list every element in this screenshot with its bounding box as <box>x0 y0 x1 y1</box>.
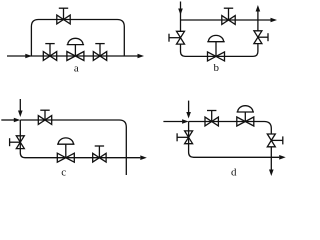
arrow: flow on main line a <box>25 54 32 59</box>
wire: top line and right drop c <box>20 120 126 175</box>
arrow: right outlet d <box>279 155 286 160</box>
valve: bypass gate valve a <box>57 8 70 24</box>
wire: main line a <box>7 55 138 57</box>
arrow: inlet flow c <box>14 118 20 123</box>
control valve a <box>67 38 84 60</box>
control valve d <box>237 106 254 126</box>
valve: top gate valve d <box>205 111 218 126</box>
valve: block valve a2 <box>93 44 106 61</box>
arrow: down outlet d <box>269 170 274 177</box>
wire: left branch and bottom line c <box>20 120 140 158</box>
arrow: top inlet flow d <box>186 112 191 119</box>
wire: bypass loop a <box>31 20 124 57</box>
valve: right block valve b <box>254 31 268 44</box>
svg-text:d: d <box>231 166 237 178</box>
wire: left inlet d <box>163 121 182 123</box>
wire: down outlet drop d <box>270 147 272 170</box>
svg-text:a: a <box>74 63 79 75</box>
arrow: inlet flow b <box>178 9 183 16</box>
valve: top gate valve c <box>38 110 51 124</box>
wire: left branch and bottom line d <box>189 122 280 158</box>
wire: top inlet drop c <box>19 99 21 111</box>
valve: left block valve c <box>10 136 25 149</box>
arrow: top outlet b <box>271 18 278 23</box>
arrow: inlet flow d <box>182 119 189 124</box>
arrow: top inlet flow c <box>18 111 23 118</box>
valve: top gate valve b <box>222 8 235 24</box>
valve: left block valve d <box>177 131 193 144</box>
wire: left inlet c <box>1 119 14 121</box>
wire: top line b <box>181 19 271 21</box>
piping schematic: four control-valve installation diagrams a, b, c, d <box>0 0 292 179</box>
svg-text:b: b <box>214 62 220 74</box>
wire: right riser upper b <box>257 11 259 31</box>
valve: right block valve d <box>267 134 283 147</box>
valve: block valve a1 <box>43 44 56 61</box>
valve: left block valve b <box>169 31 185 44</box>
wire: bottom loop b <box>181 44 258 57</box>
arrow: up outlet b <box>256 5 261 12</box>
svg-text:c: c <box>61 166 66 178</box>
wire: left inlet riser b <box>180 2 182 32</box>
arrow: outlet c <box>140 155 147 160</box>
wire: top inlet drop d <box>188 101 190 113</box>
wire: top line and right corner d <box>189 122 272 135</box>
valve: block valve c <box>93 146 106 162</box>
arrow: outlet a <box>138 54 145 59</box>
control valve c <box>57 138 74 162</box>
control valve b <box>207 35 224 61</box>
